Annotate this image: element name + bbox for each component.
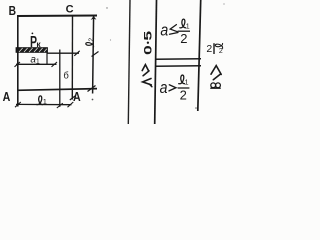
tick at bottom of section line	[70, 96, 75, 100]
tick at right end of reference line	[74, 51, 79, 56]
table vertical line 2	[155, 0, 157, 124]
svg-text:1: 1	[186, 24, 190, 31]
strip bottom reference line to section	[48, 52, 80, 54]
svg-text:5: 5	[142, 31, 154, 41]
>= symbol rotated (custom)	[142, 65, 148, 71]
fraction bar vertical	[213, 43, 215, 54]
v rotated custom: bottom stem + two loops	[211, 87, 220, 89]
table vertical line 1	[128, 0, 130, 124]
load strip (hatched)	[16, 48, 48, 53]
l1 dim tick right	[68, 102, 74, 107]
tick at bottom of right edge	[88, 86, 96, 92]
a1 dimension line	[16, 63, 57, 65]
> custom	[169, 85, 176, 91]
<= custom	[170, 25, 177, 32]
plate right edge / l2 dimension line	[93, 16, 94, 94]
b dim tick bottom	[57, 103, 63, 108]
svg-text:2: 2	[219, 48, 223, 55]
lambda rotated (custom)	[143, 79, 152, 85]
cell divider lower line	[155, 65, 201, 68]
svg-text:2: 2	[180, 31, 187, 46]
svg-text:к: к	[36, 39, 41, 49]
section line C-A	[71, 16, 73, 100]
numerator l2 (rotated ell + sub)	[215, 43, 222, 48]
svg-text:В: В	[9, 5, 16, 18]
l1 dimension line	[16, 103, 72, 105]
svg-text:А: А	[3, 90, 11, 104]
cell 1: a <= l1/2	[160, 19, 190, 46]
svg-text:1: 1	[36, 59, 40, 66]
a1 dim tick left	[15, 62, 21, 67]
rotated column label: lambda >= 0,5	[142, 31, 154, 87]
table vertical line 3	[198, 0, 201, 111]
right rotated label: v >= l2/2	[206, 43, 223, 88]
plate bottom edge	[17, 89, 97, 91]
cell 2: a > l1/2	[160, 75, 190, 103]
svg-text:а: а	[160, 22, 168, 40]
svg-text:а: а	[160, 79, 168, 97]
svg-text:2: 2	[180, 88, 187, 103]
label l2 (rotated, right edge)	[86, 38, 95, 48]
>= rotated custom	[211, 66, 221, 75]
svg-text:1: 1	[185, 80, 189, 87]
scan speckles	[106, 7, 107, 8]
svg-text:2: 2	[206, 43, 212, 55]
plate top edge	[17, 15, 97, 18]
b dimension line	[59, 50, 61, 107]
svg-text:А: А	[73, 90, 81, 104]
svg-text:б: б	[63, 71, 69, 82]
a1 dim tick right	[52, 62, 58, 67]
a1 box right edge	[46, 52, 48, 65]
svg-text:2: 2	[88, 38, 95, 42]
svg-text:1: 1	[43, 97, 47, 106]
label l1 bottom	[37, 96, 47, 106]
cell divider upper line	[155, 58, 201, 61]
svg-text:С: С	[66, 3, 74, 15]
tick on right edge mid (strip level)	[92, 52, 99, 57]
plate left edge	[17, 15, 19, 106]
arrow at top of right edge	[91, 16, 97, 20]
svg-text:0: 0	[142, 45, 154, 55]
l1 dim tick left	[15, 102, 21, 107]
